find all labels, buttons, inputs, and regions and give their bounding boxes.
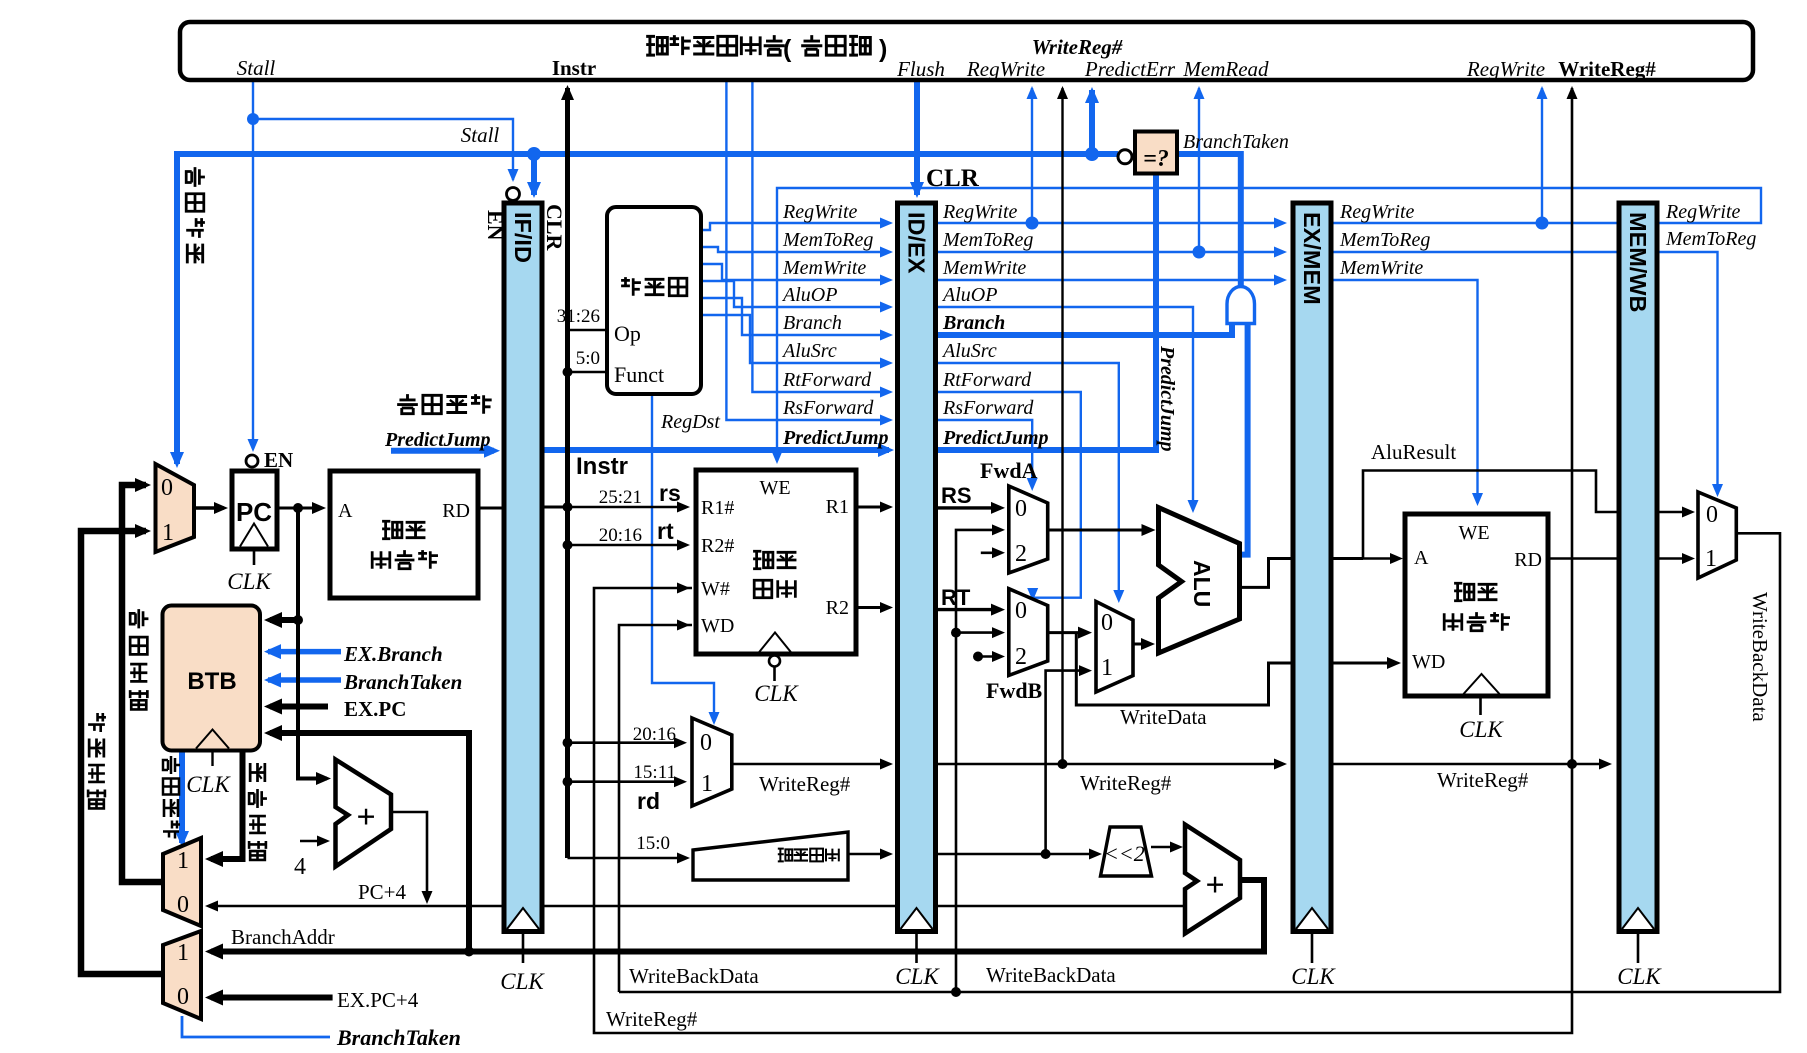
label R1# [701, 497, 734, 519]
svg-text:PC: PC [236, 497, 272, 527]
wire BranchTaken from AND gate to comparator [1177, 154, 1241, 286]
wire AluOP to ALU [934, 307, 1199, 513]
svg-text:): ) [879, 35, 887, 63]
svg-text:0: 0 [177, 984, 189, 1010]
wire instruction 5:0 to controller Funct [563, 367, 608, 377]
svg-text:AluSrc: AluSrc [781, 340, 837, 362]
label CLK regfile [754, 681, 799, 706]
svg-text:RegWrite: RegWrite [1466, 57, 1545, 81]
svg-text:RtForward: RtForward [942, 369, 1032, 391]
svg-text:RD: RD [442, 500, 470, 522]
svg-text:PC+4: PC+4 [358, 880, 407, 904]
svg-text:Funct: Funct [614, 362, 664, 387]
BTB box [163, 606, 261, 751]
PC clock notch [240, 524, 268, 547]
svg-text:CLK: CLK [1617, 964, 1662, 989]
label WE data mem [1458, 522, 1489, 544]
svg-text:PredictJump: PredictJump [1156, 345, 1178, 452]
FwdB forwarding mux [1009, 589, 1048, 676]
label EN IF/ID [483, 210, 508, 241]
svg-text:CLK: CLK [1459, 717, 1504, 742]
label MemToReg EX/MEM [1339, 229, 1430, 251]
svg-text:WriteBackData: WriteBackData [629, 964, 759, 988]
svg-text:CLK: CLK [500, 969, 545, 994]
svg-text:+: + [1205, 867, 1224, 904]
label 分支地址 vertical [249, 763, 267, 860]
wire PC output to instruction memory [277, 502, 326, 514]
svg-text:MEM/WB: MEM/WB [1625, 212, 1651, 313]
svg-text:BTB: BTB [187, 668, 236, 695]
svg-text:0: 0 [177, 892, 189, 918]
wire FwdB input 2 stub [973, 651, 1005, 662]
mux3 digit 1 [1101, 655, 1113, 681]
label 预测失败 vertical [186, 167, 205, 263]
hazard unit title 相关处理逻辑（重定向） [646, 35, 785, 55]
data memory CLK stem [1479, 696, 1482, 715]
FwdA digit 2 [1015, 541, 1027, 567]
adder plus sign 1 [356, 799, 375, 836]
svg-text:WE: WE [759, 477, 790, 499]
wire BranchAddr row [205, 880, 1264, 960]
wire FwdA input 2 stub [981, 547, 1005, 558]
svg-text:RS: RS [941, 483, 972, 508]
wire BranchTaken stub to BTB [264, 673, 341, 688]
label MemWrite right [942, 257, 1026, 279]
svg-text:EN: EN [483, 210, 508, 241]
svg-text:RsForward: RsForward [942, 397, 1034, 419]
wire RegWrite row ID/EX to EX/MEM [934, 218, 1287, 229]
wire FwdB output to ALU-B mux [1048, 627, 1092, 639]
svg-text:Op: Op [614, 321, 641, 346]
wire PredictErr up to hazard unit [1085, 87, 1099, 154]
wire PC+4 adder output [391, 812, 433, 904]
label WriteReg# bottom [606, 1007, 698, 1031]
wire sign-extend output row [848, 849, 893, 860]
wire MemToReg row to writeback mux select [1331, 252, 1723, 497]
data memory clock notch [1464, 674, 1500, 694]
wire WD from WriteBackData [619, 620, 692, 993]
svg-text:<<2: <<2 [1104, 841, 1145, 866]
svg-text:Stall: Stall [237, 56, 276, 80]
svg-text:IF/ID: IF/ID [510, 212, 536, 263]
svg-text:1: 1 [1101, 655, 1113, 681]
label WriteReg# MEM [1437, 768, 1529, 792]
svg-text:CLR: CLR [926, 165, 980, 192]
wire Instr up to hazard unit [561, 85, 574, 858]
wire constant 4 into adder [300, 836, 330, 847]
wire MemWrite row ID/EX to EX/MEM [934, 275, 1287, 286]
wire CLR into IF/ID [527, 154, 541, 198]
svg-text:0: 0 [1706, 502, 1718, 528]
label AluResult [1371, 440, 1456, 464]
WriteReg mux digit 0 [700, 730, 712, 756]
svg-text:MemWrite: MemWrite [942, 257, 1026, 279]
wire forward branch to FwdB middle [956, 627, 1005, 638]
predicted address mux (left-facing) [163, 838, 201, 926]
BTB CLK stem [211, 751, 213, 767]
label R2 [826, 597, 849, 619]
WriteReg mux digit 1 [701, 771, 713, 797]
comparator =? box [1135, 132, 1177, 174]
wire WriteReg# up to hazard unit [1057, 86, 1068, 764]
label rd [637, 788, 660, 814]
label RS [941, 483, 972, 508]
svg-text:0: 0 [1015, 496, 1027, 522]
wire predicted address loop to PC mux 0 [122, 478, 163, 882]
label 25:21 [599, 487, 642, 508]
svg-text:RtForward: RtForward [782, 369, 872, 391]
label RegWrite top-left [966, 57, 1045, 81]
wire EX.Branch stub to BTB [264, 644, 341, 659]
svg-text:CLK: CLK [227, 569, 272, 594]
label <<2 [1104, 841, 1145, 866]
wire BTB predict-jump output to mux [175, 750, 189, 847]
label WriteReg# top [1032, 35, 1123, 59]
IF/ID EN bubble [507, 188, 520, 201]
label 存储器 [372, 550, 438, 569]
label ALU [1189, 560, 1215, 607]
svg-text:WriteBackData: WriteBackData [986, 963, 1116, 987]
svg-text:0: 0 [161, 475, 173, 501]
label CLK EX/MEM [1291, 964, 1336, 989]
label 数据 [1454, 583, 1497, 601]
svg-text:MemToReg: MemToReg [942, 229, 1033, 251]
label PredictJump right [942, 427, 1049, 449]
label BranchTaken bottom [336, 1025, 461, 1050]
wire RegDst to WriteReg mux select [652, 394, 720, 725]
svg-text:=?: =? [1143, 146, 1169, 172]
svg-text:0: 0 [1101, 610, 1113, 636]
label RT [941, 585, 971, 610]
svg-text:CLK: CLK [1291, 964, 1336, 989]
svg-text:PredictErr: PredictErr [1084, 57, 1176, 81]
wire PC mux output to PC [194, 502, 228, 514]
wire branch target address to mux 1 [205, 750, 243, 867]
svg-text:0: 0 [700, 730, 712, 756]
svg-text:MemToReg: MemToReg [1665, 228, 1756, 250]
svg-text:R2: R2 [826, 597, 849, 619]
wire revised address loop to PC mux 1 [81, 524, 163, 974]
register file clock notch [758, 633, 792, 654]
comparator inverter bubble [1118, 150, 1132, 164]
sign extend box [693, 832, 848, 880]
svg-text:rs: rs [659, 480, 681, 506]
wire MemWrite to data memory WE [1331, 280, 1483, 506]
wire instruction 20:16 rt to R2# [568, 540, 691, 551]
wire RS into FwdA [934, 502, 1005, 514]
svg-text:RT: RT [941, 585, 971, 610]
data memory box [1405, 514, 1548, 696]
wire WriteBackData row [619, 533, 1780, 997]
wire RegWrite writeback to register file WE [772, 188, 1762, 464]
label 20:16 a [599, 525, 642, 546]
svg-text:FwdB: FwdB [986, 678, 1043, 703]
svg-text:WriteReg#: WriteReg# [606, 1007, 698, 1031]
pipeline register IF/ID label [510, 212, 536, 263]
label PC [236, 497, 272, 527]
label RD inst mem [442, 500, 470, 522]
wire controller Branch [701, 298, 893, 341]
label RegDst [660, 411, 720, 433]
svg-text:25:21: 25:21 [599, 487, 642, 508]
svg-text:MemRead: MemRead [1182, 57, 1269, 81]
svg-text:MemWrite: MemWrite [782, 257, 866, 279]
label RegWrite EX/MEM [1339, 201, 1415, 223]
label MemWrite left [782, 257, 866, 279]
label WE regfile [759, 477, 790, 499]
svg-text:15:11: 15:11 [633, 762, 676, 783]
label EX.PC [344, 697, 406, 721]
label MemToReg MEM/WB [1665, 228, 1756, 250]
svg-text:RegWrite: RegWrite [942, 201, 1018, 223]
wire BranchTaken select of revise mux [182, 1016, 330, 1037]
wire ALU-B mux output to ALU [1133, 638, 1155, 650]
svg-text:WriteReg#: WriteReg# [1032, 35, 1123, 59]
label Instr top [552, 56, 596, 80]
label MemToReg left [782, 229, 873, 251]
wire Flush to ID/EX CLR [910, 82, 924, 198]
wire register file R1 to ID/EX [856, 502, 893, 513]
label CLK ID/EX [895, 964, 940, 989]
wire instruction 25:21 rs to R1# [568, 502, 691, 513]
label EX.PC+4 [337, 988, 419, 1012]
wire controller AluSrc [701, 315, 893, 369]
ALU [1159, 508, 1240, 654]
svg-text:BranchTaken: BranchTaken [1183, 131, 1289, 153]
label 预测地址 vertical [130, 609, 148, 709]
pipeline register IF/ID [504, 203, 542, 963]
svg-text:20:16: 20:16 [633, 724, 676, 745]
svg-text:WriteReg#: WriteReg# [1080, 771, 1172, 795]
label WriteReg# top-right [1558, 57, 1656, 81]
wire instruction 20:16 to WriteReg mux 0 [568, 737, 688, 748]
label 20:16 b [633, 724, 676, 745]
label 预测跳转 horizontal [397, 394, 492, 414]
wire controller RegWrite [701, 218, 893, 231]
svg-text:AluOP: AluOP [781, 284, 837, 306]
svg-text:Flush: Flush [896, 57, 945, 81]
wire PredictErr / prediction-fail line [170, 147, 1118, 468]
svg-text:RD: RD [1514, 549, 1542, 571]
svg-text:CLK: CLK [754, 681, 799, 706]
label 预测跳转 vertical [163, 756, 180, 839]
label MemRead [1182, 57, 1269, 81]
label WriteBackData bottom-left [629, 964, 759, 988]
svg-text:A: A [1414, 547, 1429, 569]
svg-text:WD: WD [1412, 651, 1445, 673]
svg-text:1: 1 [177, 940, 189, 966]
register file CLK bubble [769, 656, 780, 682]
wire WriteData to data memory WD [1076, 633, 1401, 705]
wire ALU equal output to AND gate [1241, 322, 1248, 555]
PC EN bubble [246, 455, 258, 467]
label R2# [701, 535, 734, 557]
wire RegWrite up to hazard unit (ID stage) [1026, 86, 1039, 230]
label MemWrite EX/MEM [1339, 257, 1423, 279]
pipeline register ID/EX label [904, 212, 930, 274]
svg-text:R1#: R1# [701, 497, 734, 519]
svg-text:1: 1 [162, 520, 174, 546]
wire branch address feedback to BTB [264, 725, 474, 957]
wire controller MemWrite [701, 264, 893, 286]
wb mux digit 0 [1706, 502, 1718, 528]
label 修订地址 vertical [88, 713, 106, 808]
BTB clock notch [196, 730, 229, 749]
wire RsForward to FwdA mux select [934, 420, 1038, 491]
label Branch left [783, 312, 842, 334]
label RegWrite left [782, 201, 858, 223]
label Instr ID [576, 453, 628, 480]
svg-text:WE: WE [1458, 522, 1489, 544]
svg-text:EN: EN [264, 448, 293, 472]
wire immediate up to ALU-B mux input 1 [1046, 665, 1092, 854]
mux0 digit 0 [161, 475, 173, 501]
label WriteData [1120, 705, 1207, 729]
wire PredictJump to comparator [934, 173, 1156, 450]
FwdA digit 0 [1015, 496, 1027, 522]
adder PC+4 [336, 760, 392, 867]
svg-text:4: 4 [294, 854, 306, 880]
svg-text:0: 0 [1015, 598, 1027, 624]
mux3 digit 0 [1101, 610, 1113, 636]
wire Stall branch to IF/ID EN [247, 113, 519, 182]
label RsForward right [942, 397, 1034, 419]
label A data mem [1414, 547, 1429, 569]
wire AluSrc to ALU-B mux select [934, 363, 1124, 603]
wire MemToReg row ID/EX to EX/MEM [934, 247, 1287, 258]
wire RT into FwdB [934, 604, 1005, 616]
label Funct [614, 362, 664, 387]
wire controller AluOP [701, 281, 893, 313]
label RtForward left [782, 369, 872, 391]
label PredictJump left [384, 429, 491, 451]
label BranchAddr [231, 925, 335, 949]
label rt [657, 518, 674, 544]
label PredictJump left [782, 427, 889, 449]
wire AluResult to writeback mux 0 [1363, 471, 1695, 559]
label WriteReg# EX [1080, 771, 1172, 795]
label RegWrite right [942, 201, 1018, 223]
svg-text:WriteReg#: WriteReg# [759, 772, 851, 796]
wire immediate row to shift and ALU-B mux [934, 849, 1102, 860]
label AluOP left [781, 284, 837, 306]
svg-text:EX.PC: EX.PC [344, 697, 406, 721]
muxB digit 0 [177, 984, 189, 1010]
svg-text:CLK: CLK [186, 772, 231, 797]
AND gate [1227, 287, 1255, 324]
svg-text:2: 2 [1015, 644, 1027, 670]
svg-text:AluOP: AluOP [941, 284, 997, 306]
wire data memory A input [1363, 553, 1403, 564]
shift left 2 box [1101, 827, 1152, 876]
svg-text:rt: rt [657, 518, 674, 544]
wire instruction 15:0 to sign extend [568, 853, 691, 864]
wire PC to BTB input [264, 612, 303, 628]
pipeline register MEM/WB label [1625, 212, 1651, 313]
pipeline register EX/MEM label [1299, 212, 1325, 305]
label AluSrc left [781, 340, 837, 362]
hazard unit title 重定向 [801, 35, 870, 55]
label WD regfile [701, 615, 734, 637]
label FwdB [986, 678, 1043, 703]
label BranchTaken BTB [343, 670, 462, 694]
svg-text:CLK: CLK [895, 964, 940, 989]
label Flush [896, 57, 945, 81]
svg-text:EX/MEM: EX/MEM [1299, 212, 1325, 305]
wire Branch row to AND gate [934, 322, 1232, 335]
label CLK MEM/WB [1617, 964, 1662, 989]
wire EX.PC stub to BTB [264, 699, 328, 715]
svg-text:20:16: 20:16 [599, 525, 642, 546]
label 5:0 [576, 348, 600, 369]
adder branch target [1185, 825, 1240, 934]
WriteReg destination mux [692, 718, 732, 806]
svg-text:BranchTaken: BranchTaken [336, 1025, 461, 1050]
FwdB digit 0 [1015, 598, 1027, 624]
svg-text:EX.PC+4: EX.PC+4 [337, 988, 419, 1012]
label RD data mem [1514, 549, 1542, 571]
label 15:11 [633, 762, 676, 783]
wire RtForward from hazard unit [752, 82, 893, 398]
label 符号扩展 [778, 849, 839, 862]
label Op [614, 321, 641, 346]
wire forward path to FwdA/FwdB middle inputs [951, 524, 1005, 992]
hazard unit 相关处理逻辑 box [180, 22, 1753, 80]
label 指令 [382, 521, 425, 539]
adder plus sign 2 [1205, 867, 1224, 904]
controller 控制器 box [607, 207, 701, 394]
label Stall top [237, 56, 276, 80]
label CLK under PC [227, 569, 272, 594]
FwdB digit 2 [1015, 644, 1027, 670]
wire ALU output [1240, 559, 1364, 588]
register file box [696, 470, 856, 654]
label R1 [826, 496, 849, 518]
wire shift-left-2 output to branch adder [1151, 842, 1183, 853]
label BranchTaken comparator [1183, 131, 1289, 153]
label EN PC [264, 448, 293, 472]
svg-text:FwdA: FwdA [980, 458, 1038, 483]
label CLR bold [926, 165, 980, 192]
wire instruction memory RD to IF/ID [478, 507, 502, 510]
svg-text:RegWrite: RegWrite [1665, 201, 1741, 223]
svg-text:15:0: 15:0 [636, 833, 670, 854]
label FwdA [980, 458, 1038, 483]
pipeline register ID/EX [898, 203, 936, 963]
label Stall mid [461, 123, 500, 147]
label CLR IF/ID [542, 204, 567, 252]
muxA digit 0 [177, 892, 189, 918]
wb mux digit 1 [1705, 546, 1717, 572]
svg-text:AluResult: AluResult [1371, 440, 1456, 464]
PC source mux [156, 464, 195, 552]
svg-text:BranchTaken: BranchTaken [343, 670, 462, 694]
label =? [1143, 146, 1169, 172]
wire RegWrite row EX/MEM to MEM/WB [1331, 222, 1658, 224]
muxA digit 1 [177, 848, 189, 874]
pipeline register EX/MEM [1293, 203, 1331, 963]
label CLK IF/ID [500, 969, 545, 994]
label W# [701, 578, 730, 600]
svg-text:Branch: Branch [783, 312, 842, 334]
label PredictErr [1084, 57, 1176, 81]
label BTB [187, 668, 236, 695]
label RegWrite top-right [1466, 57, 1545, 81]
svg-text:RegWrite: RegWrite [966, 57, 1045, 81]
label A inst mem [338, 500, 353, 522]
label 31:26 [557, 306, 600, 327]
svg-text:RegDst: RegDst [660, 411, 720, 433]
